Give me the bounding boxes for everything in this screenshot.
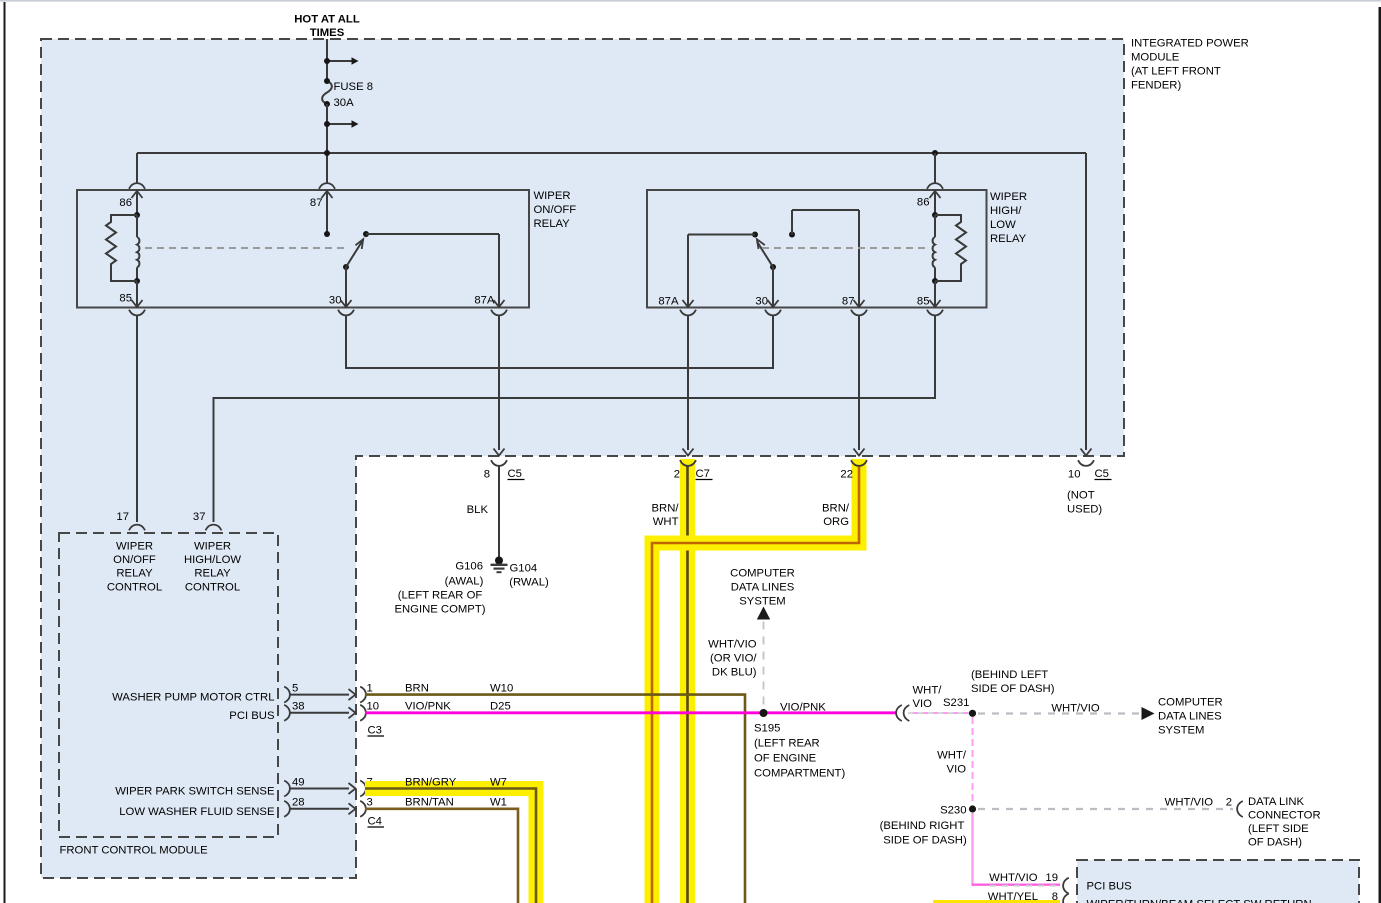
- svg-text:ENGINE COMPT): ENGINE COMPT): [394, 604, 485, 616]
- wire 87A fixed contact high/low: [688, 235, 755, 308]
- svg-text:C7: C7: [696, 468, 710, 480]
- wire HIGH/LOW pin 85 to FCM pin 37: [214, 316, 936, 522]
- svg-text:WIPER: WIPER: [534, 190, 571, 202]
- wire B+ rail across module: [137, 153, 1086, 450]
- relay actuating link HIGH/LOW (dashed): [762, 247, 925, 249]
- svg-text:8: 8: [484, 469, 490, 481]
- svg-text:WHT/YEL: WHT/YEL: [988, 891, 1038, 903]
- wire ON/OFF pin 30 to HIGH/LOW pin 30: [346, 316, 773, 368]
- svg-text:G104: G104: [510, 563, 538, 575]
- wire fixed contact to pin 87A: [366, 234, 499, 307]
- svg-text:3: 3: [367, 797, 373, 809]
- svg-text:LOW WASHER FLUID SENSE: LOW WASHER FLUID SENSE: [119, 806, 275, 818]
- svg-text:(BEHIND LEFT: (BEHIND LEFT: [971, 669, 1048, 681]
- pin 87A WIPER ON/OFF RELAY: [474, 295, 507, 316]
- module box PCI BUS (wiper/turn/beam select switch): [1077, 860, 1359, 903]
- svg-text:ON/OFF: ON/OFF: [534, 204, 577, 216]
- svg-text:(LEFT REAR OF: (LEFT REAR OF: [398, 590, 483, 602]
- svg-text:W10: W10: [490, 683, 513, 695]
- wire label WHT/ VIO: [913, 685, 943, 711]
- svg-text:VIO: VIO: [947, 764, 967, 776]
- wire labels BRN W10: [405, 683, 513, 695]
- svg-text:DATA LINES: DATA LINES: [1158, 711, 1222, 723]
- svg-text:WHT/VIO: WHT/VIO: [1165, 797, 1214, 809]
- relay label WIPER ON/OFF RELAY: [534, 190, 577, 230]
- svg-text:ON/OFF: ON/OFF: [113, 554, 156, 566]
- svg-text:87: 87: [310, 197, 323, 209]
- svg-text:S230: S230: [940, 805, 966, 817]
- svg-text:W7: W7: [490, 777, 507, 789]
- svg-text:DATA LINES: DATA LINES: [731, 582, 795, 594]
- svg-text:FRONT CONTROL MODULE: FRONT CONTROL MODULE: [60, 845, 209, 857]
- wire BRN/ORG from C7 pin 22 (yellow highlight): [645, 459, 867, 903]
- junction fuse to rail: [324, 150, 330, 156]
- svg-text:WIPER/TURN/BEAM SELECT SW RETU: WIPER/TURN/BEAM SELECT SW RETURN: [1087, 899, 1312, 903]
- in-line connector (double shell): [896, 705, 909, 721]
- svg-text:PCI BUS: PCI BUS: [1087, 881, 1133, 893]
- svg-text:CONTROL: CONTROL: [107, 582, 162, 594]
- FCM pin 49 WIPER PARK SWITCH SENSE to pin 7: [115, 777, 373, 798]
- wire ON/OFF pin 85 down to FCM pin 17: [136, 316, 138, 522]
- power source label HOT AT ALL TIMES: [294, 14, 360, 40]
- svg-text:FENDER): FENDER): [1131, 80, 1181, 92]
- FCM pin 38 PCI BUS to pin 10: [229, 701, 379, 722]
- wire BRN/TAN W1 low washer fluid: [365, 809, 518, 903]
- svg-text:86: 86: [119, 197, 132, 209]
- svg-text:COMPUTER: COMPUTER: [1158, 697, 1223, 709]
- svg-text:(OR VIO/: (OR VIO/: [710, 653, 757, 665]
- svg-text:10: 10: [1068, 469, 1081, 481]
- resistor parallel with ON/OFF relay coil: [106, 215, 137, 281]
- svg-text:SIDE OF DASH): SIDE OF DASH): [883, 835, 967, 847]
- svg-text:BRN/: BRN/: [652, 503, 680, 515]
- svg-text:85: 85: [119, 293, 132, 305]
- pin 37 wiper high/low relay control: [193, 511, 222, 530]
- svg-text:WIPER: WIPER: [990, 191, 1027, 203]
- pin 85 WIPER ON/OFF RELAY: [119, 293, 145, 316]
- pin 86 WIPER ON/OFF RELAY: [119, 183, 145, 209]
- wire coil to pin 85 high/low: [934, 281, 936, 307]
- pin 17 wiper on/off relay control: [116, 511, 145, 530]
- wire fuse output down to relay 87: [326, 104, 328, 183]
- svg-text:(AT LEFT FRONT: (AT LEFT FRONT: [1131, 66, 1221, 78]
- module label INTEGRATED POWER MODULE (AT LEFT FRONT FENDER): [1131, 38, 1249, 92]
- splice S195: [760, 709, 768, 717]
- relay switch WIPER HIGH/LOW RELAY: [752, 232, 776, 271]
- wire WHT/VIO from S231 to computer data lines (dashed): [978, 707, 1155, 720]
- svg-text:(LEFT SIDE: (LEFT SIDE: [1248, 823, 1309, 835]
- wire pin 86 to coil: [136, 191, 138, 215]
- svg-text:INTEGRATED POWER: INTEGRATED POWER: [1131, 38, 1249, 50]
- wire BRN/WHT from C7 pin 2 (yellow highlight): [680, 459, 695, 903]
- svg-text:WHT/VIO: WHT/VIO: [1051, 703, 1100, 715]
- svg-text:85: 85: [917, 296, 930, 308]
- wire ON/OFF pin 87A down to C5 pin 8: [498, 316, 500, 450]
- wire VIO/PNK D25 PCI bus: [365, 711, 896, 714]
- relay box WIPER HIGH/LOW RELAY: [647, 190, 987, 308]
- node power tap arrow lower: [324, 120, 359, 128]
- svg-text:(BEHIND RIGHT: (BEHIND RIGHT: [880, 820, 965, 832]
- svg-text:(AWAL): (AWAL): [445, 576, 484, 588]
- pin 85 WIPER HIGH/LOW RELAY: [917, 296, 943, 316]
- wire WHT/YEL to pin 8: [933, 900, 1060, 903]
- svg-text:DATA LINK: DATA LINK: [1248, 796, 1305, 808]
- page border left: [4, 2, 6, 903]
- FCM label WIPER ON/OFF RELAY CONTROL: [107, 541, 162, 594]
- wire WHT/VIO from connector to S231: [908, 712, 969, 714]
- svg-text:OF DASH): OF DASH): [1248, 837, 1302, 849]
- wire label WHT/VIO (OR VIO/ DK BLU): [708, 639, 757, 679]
- svg-text:10: 10: [367, 701, 380, 713]
- wire labels BRN/GRY W7: [405, 777, 507, 789]
- wire label WHT/ VIO vertical run: [937, 750, 967, 776]
- module outline: INTEGRATED POWER MODULE + FRONT CONTROL MODULE (L-shaped): [41, 39, 1124, 878]
- svg-text:S195: S195: [754, 723, 780, 735]
- pin 30 WIPER HIGH/LOW RELAY: [755, 296, 781, 316]
- splice S230: [969, 805, 976, 812]
- wire BRN/GRY W7 wiper park switch (yellow highlight): [365, 781, 544, 903]
- svg-text:TIMES: TIMES: [310, 27, 345, 39]
- svg-text:G106: G106: [455, 561, 483, 573]
- wire switch common to pin 30: [345, 267, 347, 307]
- svg-text:(LEFT REAR: (LEFT REAR: [754, 738, 820, 750]
- svg-text:WHT/: WHT/: [913, 685, 943, 697]
- svg-text:C5: C5: [508, 468, 522, 480]
- wire label BRN/WHT: [652, 503, 680, 529]
- svg-text:FUSE 8: FUSE 8: [334, 81, 374, 93]
- svg-text:86: 86: [917, 197, 930, 209]
- svg-text:VIO: VIO: [913, 698, 933, 710]
- connector C7 pin 2: [674, 449, 713, 481]
- svg-text:(NOT: (NOT: [1067, 490, 1095, 502]
- relay actuating link ON/OFF (dashed): [145, 247, 348, 249]
- wire pin 87 stub to fixed contact region: [324, 191, 330, 237]
- svg-text:RELAY: RELAY: [116, 568, 153, 580]
- svg-text:1: 1: [367, 683, 373, 695]
- connector C7 pin 22: [840, 449, 867, 481]
- svg-text:SIDE OF DASH): SIDE OF DASH): [971, 683, 1055, 695]
- pin 87 WIPER ON/OFF RELAY: [310, 183, 335, 209]
- svg-text:BLK: BLK: [467, 504, 489, 516]
- svg-text:(RWAL): (RWAL): [509, 577, 549, 589]
- svg-text:BRN: BRN: [405, 683, 429, 695]
- page border right: [1379, 7, 1381, 903]
- wire HIGH/LOW pin 87A down to C7 pin 2: [687, 316, 689, 450]
- svg-text:2: 2: [1226, 797, 1232, 809]
- PCI BUS pin 8 connector: [988, 891, 1069, 903]
- relay coil WIPER HIGH/LOW RELAY: [932, 212, 938, 284]
- computer data lines system reference (up arrow from S195): [730, 568, 795, 710]
- svg-text:LOW: LOW: [990, 219, 1016, 231]
- wire HIGH/LOW pin 87 down to C7 pin 22: [858, 316, 860, 450]
- svg-text:ORG: ORG: [823, 516, 849, 528]
- svg-text:C5: C5: [1095, 468, 1109, 480]
- svg-text:RELAY: RELAY: [990, 233, 1027, 245]
- svg-text:28: 28: [292, 797, 305, 809]
- page border top: [0, 0, 1381, 2]
- FCM pin 28 LOW WASHER FLUID SENSE to pin 3: [119, 797, 373, 818]
- wire label BRN/ORG: [822, 503, 850, 529]
- wire pin 86 to coil high/low: [934, 191, 936, 215]
- svg-text:VIO/PNK: VIO/PNK: [405, 701, 451, 713]
- computer data lines system reference (right): [1158, 697, 1223, 737]
- front control module inner box: [59, 533, 278, 837]
- svg-text:PCI BUS: PCI BUS: [229, 710, 275, 722]
- svg-text:RELAY: RELAY: [534, 218, 571, 230]
- svg-text:D25: D25: [490, 701, 511, 713]
- svg-text:BRN/TAN: BRN/TAN: [405, 797, 454, 809]
- svg-text:SYSTEM: SYSTEM: [739, 596, 785, 608]
- svg-text:37: 37: [193, 511, 206, 523]
- fuse label FUSE 8 30A: [334, 81, 374, 109]
- svg-text:S231: S231: [943, 697, 969, 709]
- data link connector pin 2: [1165, 797, 1243, 818]
- svg-text:2: 2: [674, 469, 680, 481]
- svg-text:RELAY: RELAY: [194, 568, 231, 580]
- svg-text:WIPER PARK SWITCH SENSE: WIPER PARK SWITCH SENSE: [115, 786, 275, 798]
- label DATA LINK CONNECTOR (LEFT SIDE OF DASH): [1248, 796, 1321, 849]
- wire BRN W10 washer pump motor: [365, 695, 745, 903]
- pin 87 WIPER HIGH/LOW RELAY: [842, 296, 867, 316]
- svg-text:WASHER PUMP MOTOR CTRL: WASHER PUMP MOTOR CTRL: [112, 692, 274, 704]
- svg-text:WHT/VIO: WHT/VIO: [989, 872, 1038, 884]
- svg-text:C3: C3: [368, 725, 382, 737]
- relay coil WIPER ON/OFF RELAY: [134, 212, 140, 284]
- ground G106/G104: [491, 557, 508, 573]
- svg-text:USED): USED): [1067, 504, 1102, 516]
- svg-text:5: 5: [292, 683, 298, 695]
- connector C4 label: [368, 816, 385, 828]
- svg-text:WHT: WHT: [653, 516, 679, 528]
- svg-text:HIGH/LOW: HIGH/LOW: [184, 554, 241, 566]
- relay label WIPER HIGH/LOW RELAY: [990, 191, 1027, 245]
- svg-text:CONNECTOR: CONNECTOR: [1248, 810, 1321, 822]
- svg-text:C4: C4: [368, 816, 382, 828]
- svg-text:22: 22: [840, 469, 853, 481]
- svg-text:DK BLU): DK BLU): [712, 667, 757, 679]
- svg-text:MODULE: MODULE: [1131, 52, 1180, 64]
- svg-text:WIPER: WIPER: [194, 541, 231, 553]
- FCM label WIPER HIGH/LOW RELAY CONTROL: [184, 541, 241, 594]
- svg-text:30: 30: [755, 296, 768, 308]
- svg-text:COMPARTMENT): COMPARTMENT): [754, 768, 845, 780]
- svg-text:17: 17: [116, 511, 129, 523]
- svg-text:VIO/PNK: VIO/PNK: [780, 702, 826, 714]
- svg-text:30A: 30A: [334, 97, 355, 109]
- splice S231: [969, 710, 976, 717]
- splice label S231 (BEHIND LEFT SIDE OF DASH): [943, 669, 1055, 709]
- FCM pin 5 WASHER PUMP MOTOR CTRL to pin 1: [112, 683, 373, 704]
- wire battery feed down from HOT AT ALL TIMES: [326, 39, 328, 81]
- node power tap arrow upper: [324, 57, 359, 65]
- junction rail to wiper high/low relay 86: [932, 150, 938, 183]
- fuse F8 30A: [322, 78, 332, 107]
- connector C5 pin 10 (not used): [1067, 449, 1112, 516]
- svg-text:HOT AT ALL: HOT AT ALL: [294, 14, 360, 26]
- wire WHT/VIO from S231 down to S230 (pink): [972, 717, 974, 805]
- svg-text:49: 49: [292, 777, 305, 789]
- svg-text:W1: W1: [490, 797, 507, 809]
- resistor parallel with HIGH/LOW relay coil: [935, 215, 966, 281]
- wire labels VIO/PNK D25: [405, 701, 511, 713]
- svg-text:CONTROL: CONTROL: [185, 582, 240, 594]
- svg-text:87: 87: [842, 296, 855, 308]
- svg-text:BRN/: BRN/: [822, 503, 850, 515]
- svg-text:BRN/GRY: BRN/GRY: [405, 777, 457, 789]
- svg-text:19: 19: [1045, 872, 1058, 884]
- svg-text:HIGH/: HIGH/: [990, 205, 1022, 217]
- svg-text:COMPUTER: COMPUTER: [730, 568, 795, 580]
- svg-text:8: 8: [1052, 891, 1058, 903]
- svg-text:87A: 87A: [474, 295, 495, 307]
- svg-text:SYSTEM: SYSTEM: [1158, 725, 1204, 737]
- wire coil to pin 85: [136, 281, 138, 307]
- pin 87A WIPER HIGH/LOW RELAY: [658, 296, 696, 316]
- wire 87 fixed contact high/low: [789, 210, 859, 307]
- svg-text:WHT/: WHT/: [937, 750, 967, 762]
- wire WHT/VIO from S230 to data link connector (dashed): [978, 808, 1233, 810]
- svg-text:WHT/VIO: WHT/VIO: [708, 639, 757, 651]
- relay box WIPER ON/OFF RELAY: [77, 190, 529, 308]
- wire labels BRN/TAN W1: [405, 797, 507, 809]
- wire BLK from C5 pin 8 to ground: [498, 466, 500, 557]
- svg-text:WIPER: WIPER: [116, 541, 153, 553]
- connector C3 label: [368, 725, 385, 737]
- wire WHT/VIO from S230 down to PCI BUS pin 19: [972, 813, 1061, 886]
- pin 30 WIPER ON/OFF RELAY: [329, 295, 354, 316]
- svg-text:30: 30: [329, 295, 342, 307]
- svg-text:OF ENGINE: OF ENGINE: [754, 753, 817, 765]
- splice label S230 (BEHIND RIGHT SIDE OF DASH): [880, 805, 967, 847]
- connector C5 pin 8: [484, 449, 525, 481]
- pin 86 WIPER HIGH/LOW RELAY: [917, 183, 943, 208]
- PCI BUS pin 19 connector: [989, 872, 1069, 894]
- svg-text:38: 38: [292, 701, 305, 713]
- splice label S195 (LEFT REAR OF ENGINE COMPARTMENT): [754, 723, 845, 780]
- ground labels G106 (AWAL) G104 (RWAL) (LEFT REAR OF ENGINE COMPT): [394, 561, 549, 616]
- relay switch WIPER ON/OFF RELAY: [343, 231, 369, 270]
- wire switch common to pin 30 high/low: [772, 267, 774, 307]
- svg-text:87A: 87A: [658, 296, 679, 308]
